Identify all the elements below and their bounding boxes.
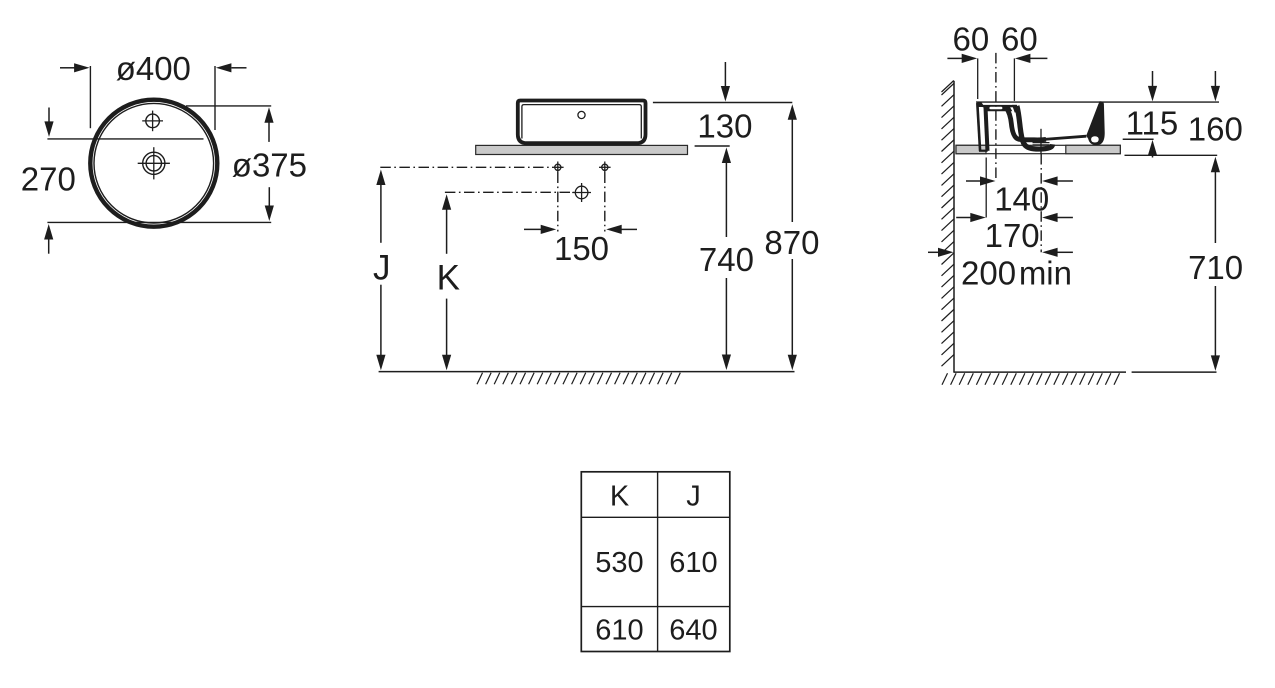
svg-text:150: 150 bbox=[554, 230, 609, 267]
svg-text:140: 140 bbox=[994, 180, 1049, 217]
svg-text:530: 530 bbox=[595, 547, 643, 579]
svg-text:610: 610 bbox=[595, 615, 643, 647]
svg-text:J: J bbox=[686, 480, 701, 512]
svg-text:160: 160 bbox=[1188, 111, 1243, 148]
svg-text:60: 60 bbox=[1001, 21, 1038, 58]
svg-text:ø400: ø400 bbox=[116, 50, 191, 87]
svg-text:270: 270 bbox=[21, 160, 76, 197]
svg-text:610: 610 bbox=[669, 547, 717, 579]
svg-text:640: 640 bbox=[669, 615, 717, 647]
svg-text:K: K bbox=[610, 480, 630, 512]
svg-text:740: 740 bbox=[699, 241, 754, 278]
svg-text:130: 130 bbox=[697, 108, 752, 145]
svg-text:J: J bbox=[373, 248, 391, 287]
svg-text:K: K bbox=[437, 258, 460, 297]
svg-text:870: 870 bbox=[764, 224, 819, 261]
svg-text:ø375: ø375 bbox=[232, 147, 307, 184]
svg-text:170: 170 bbox=[985, 217, 1040, 254]
svg-text:115: 115 bbox=[1126, 105, 1179, 142]
svg-text:710: 710 bbox=[1188, 249, 1243, 286]
svg-text:60: 60 bbox=[953, 21, 990, 58]
svg-text:200 min: 200 min bbox=[961, 255, 1072, 292]
